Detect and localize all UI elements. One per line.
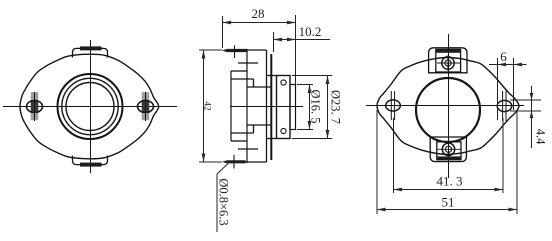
left mounting hole right view [386, 100, 401, 111]
top terminal inner rect [436, 49, 461, 72]
bottom rivet cross h [438, 148, 461, 150]
dim 51 line [377, 209, 517, 211]
centerline horizontal left view [3, 106, 177, 108]
left hole slot line b [394, 91, 396, 120]
svg-text:6: 6 [500, 49, 507, 64]
dim 28 line [223, 22, 296, 24]
dim 6 arrows [498, 63, 507, 67]
dim 41.3 line [394, 189, 504, 191]
right mounting hole right view [497, 100, 512, 111]
dim 42 extension top [199, 49, 222, 51]
svg-text:Ø16. 5: Ø16. 5 [309, 89, 323, 123]
dim phi16.5 extension top [297, 84, 313, 86]
dim 41.3 arrows [394, 188, 403, 192]
right hole vertical axis [145, 92, 147, 121]
dim 4.4 extension bottom [510, 110, 541, 112]
cap circle (back) [416, 78, 480, 142]
body right edge [266, 50, 268, 162]
collar step lower riser [253, 125, 255, 133]
body seam upper [247, 86, 271, 88]
centerline vertical left view [90, 40, 92, 173]
collar step upper [231, 78, 254, 80]
dim 42 line [203, 50, 205, 162]
right hole slot line b [505, 91, 507, 121]
svg-text:Ø0.8×6.3: Ø0.8×6.3 [217, 178, 231, 225]
svg-text:Ø23. 7: Ø23. 7 [329, 90, 343, 124]
leader phi0.8x6.3 vertical [216, 174, 218, 232]
right mounting hole hatch band [142, 93, 150, 121]
bottom terminal blade [222, 160, 246, 163]
right mounting hole [138, 101, 154, 113]
leader phi0.8x6.3 diagonal [217, 164, 228, 175]
top tab housing [73, 48, 108, 57]
dim 28 extension left [222, 16, 224, 48]
cap skirt top connector [267, 75, 277, 77]
body top edge [247, 49, 267, 51]
cap middle circle [62, 78, 118, 134]
bottom rivet cross v [448, 142, 450, 157]
dim 41.3 extension left [393, 118, 395, 193]
dim phi16.5 extension bottom [297, 129, 313, 131]
left hole hatch core [31, 100, 39, 113]
left mounting hole hatch band [31, 93, 39, 121]
left hole slot line a [390, 91, 392, 120]
cap outer circle [58, 74, 123, 139]
dim 42 arrows [202, 50, 206, 59]
dim phi23.7 line [327, 76, 329, 139]
top rivet inner [445, 60, 451, 66]
dim 4.4 line [531, 86, 533, 148]
top terminal hole tick [234, 46, 236, 59]
dim 41.3 extension right [502, 118, 504, 193]
collar step upper riser [253, 79, 255, 87]
dim 4.4 extension top [510, 99, 541, 101]
body seam lower [247, 124, 271, 126]
dim 10.2 line [274, 39, 331, 41]
svg-text:41. 3: 41. 3 [437, 174, 463, 189]
dim 28/10.2 extension right (long) [295, 15, 297, 85]
cap inner circle (boss) [66, 83, 114, 131]
dim phi16.5 line [309, 85, 311, 130]
top rivet outer [442, 57, 454, 69]
left hole vertical axis [34, 92, 36, 121]
right hole hatch core [142, 100, 150, 113]
svg-text:28: 28 [252, 6, 265, 21]
dim 6 line [489, 64, 527, 66]
dim 51 arrows [377, 208, 386, 212]
flange plate edge-on [270, 54, 272, 160]
dim 51 extension right [516, 110, 518, 214]
top terminal blade [222, 49, 247, 52]
body bottom edge [246, 161, 267, 163]
top rivet cross v [447, 55, 449, 71]
body notch lower [238, 148, 258, 150]
cap crimp dimple upper [281, 80, 286, 85]
dim 28 arrows [223, 21, 232, 25]
centerline middle view [230, 106, 303, 108]
bottom terminal bar (edge-on) [80, 163, 102, 167]
dim 10.2 arrows [274, 38, 283, 42]
bottom terminal inner rect [437, 142, 461, 160]
dim phi23.7 extension bottom [292, 138, 332, 140]
svg-text:51: 51 [442, 195, 455, 210]
dim 6 extension left [497, 58, 499, 120]
dim 4.4 arrows [530, 93, 534, 100]
top terminal clip bar [436, 49, 461, 52]
svg-text:10.2: 10.2 [299, 24, 322, 39]
cap skirt bottom connector [267, 138, 277, 140]
centerline vertical right view [448, 34, 450, 178]
collar step lower [231, 132, 254, 134]
centerline horizontal right view [366, 105, 524, 107]
bottom tab housing [73, 156, 108, 165]
flange oval outline right view [377, 58, 519, 155]
left mounting hole [27, 101, 43, 113]
svg-text:4.4: 4.4 [534, 129, 548, 145]
right hole slot line a [502, 91, 504, 121]
top terminal bar (edge-on) [80, 46, 102, 50]
dim 51 extension left [376, 110, 378, 214]
svg-text:42: 42 [202, 101, 212, 111]
dim 42 extension bottom [199, 161, 222, 163]
dim phi23.7 arrows [326, 76, 330, 85]
bottom rivet outer [442, 143, 454, 155]
body notch upper [238, 62, 258, 64]
dim 6 extension right [513, 58, 515, 110]
flange oval outline [20, 54, 159, 159]
bottom terminal clip bar [437, 156, 461, 159]
body left edge upper [246, 49, 248, 163]
bottom rivet inner [445, 146, 451, 152]
bottom terminal housing [430, 137, 466, 162]
body collar left edge [230, 71, 232, 141]
dim 10.2 extension left [273, 32, 275, 52]
dim phi23.7 extension top [292, 75, 332, 77]
collar bottom edge [231, 140, 247, 142]
top rivet cross h [437, 62, 460, 64]
cap crimp dimple lower [281, 128, 286, 133]
cap front boss rectangle [290, 85, 296, 130]
top terminal housing [429, 48, 467, 73]
collar top edge [231, 70, 247, 72]
bottom terminal hole tick [233, 155, 235, 169]
dim phi16.5 arrows [308, 85, 312, 94]
cap skirt rectangle [277, 76, 291, 139]
